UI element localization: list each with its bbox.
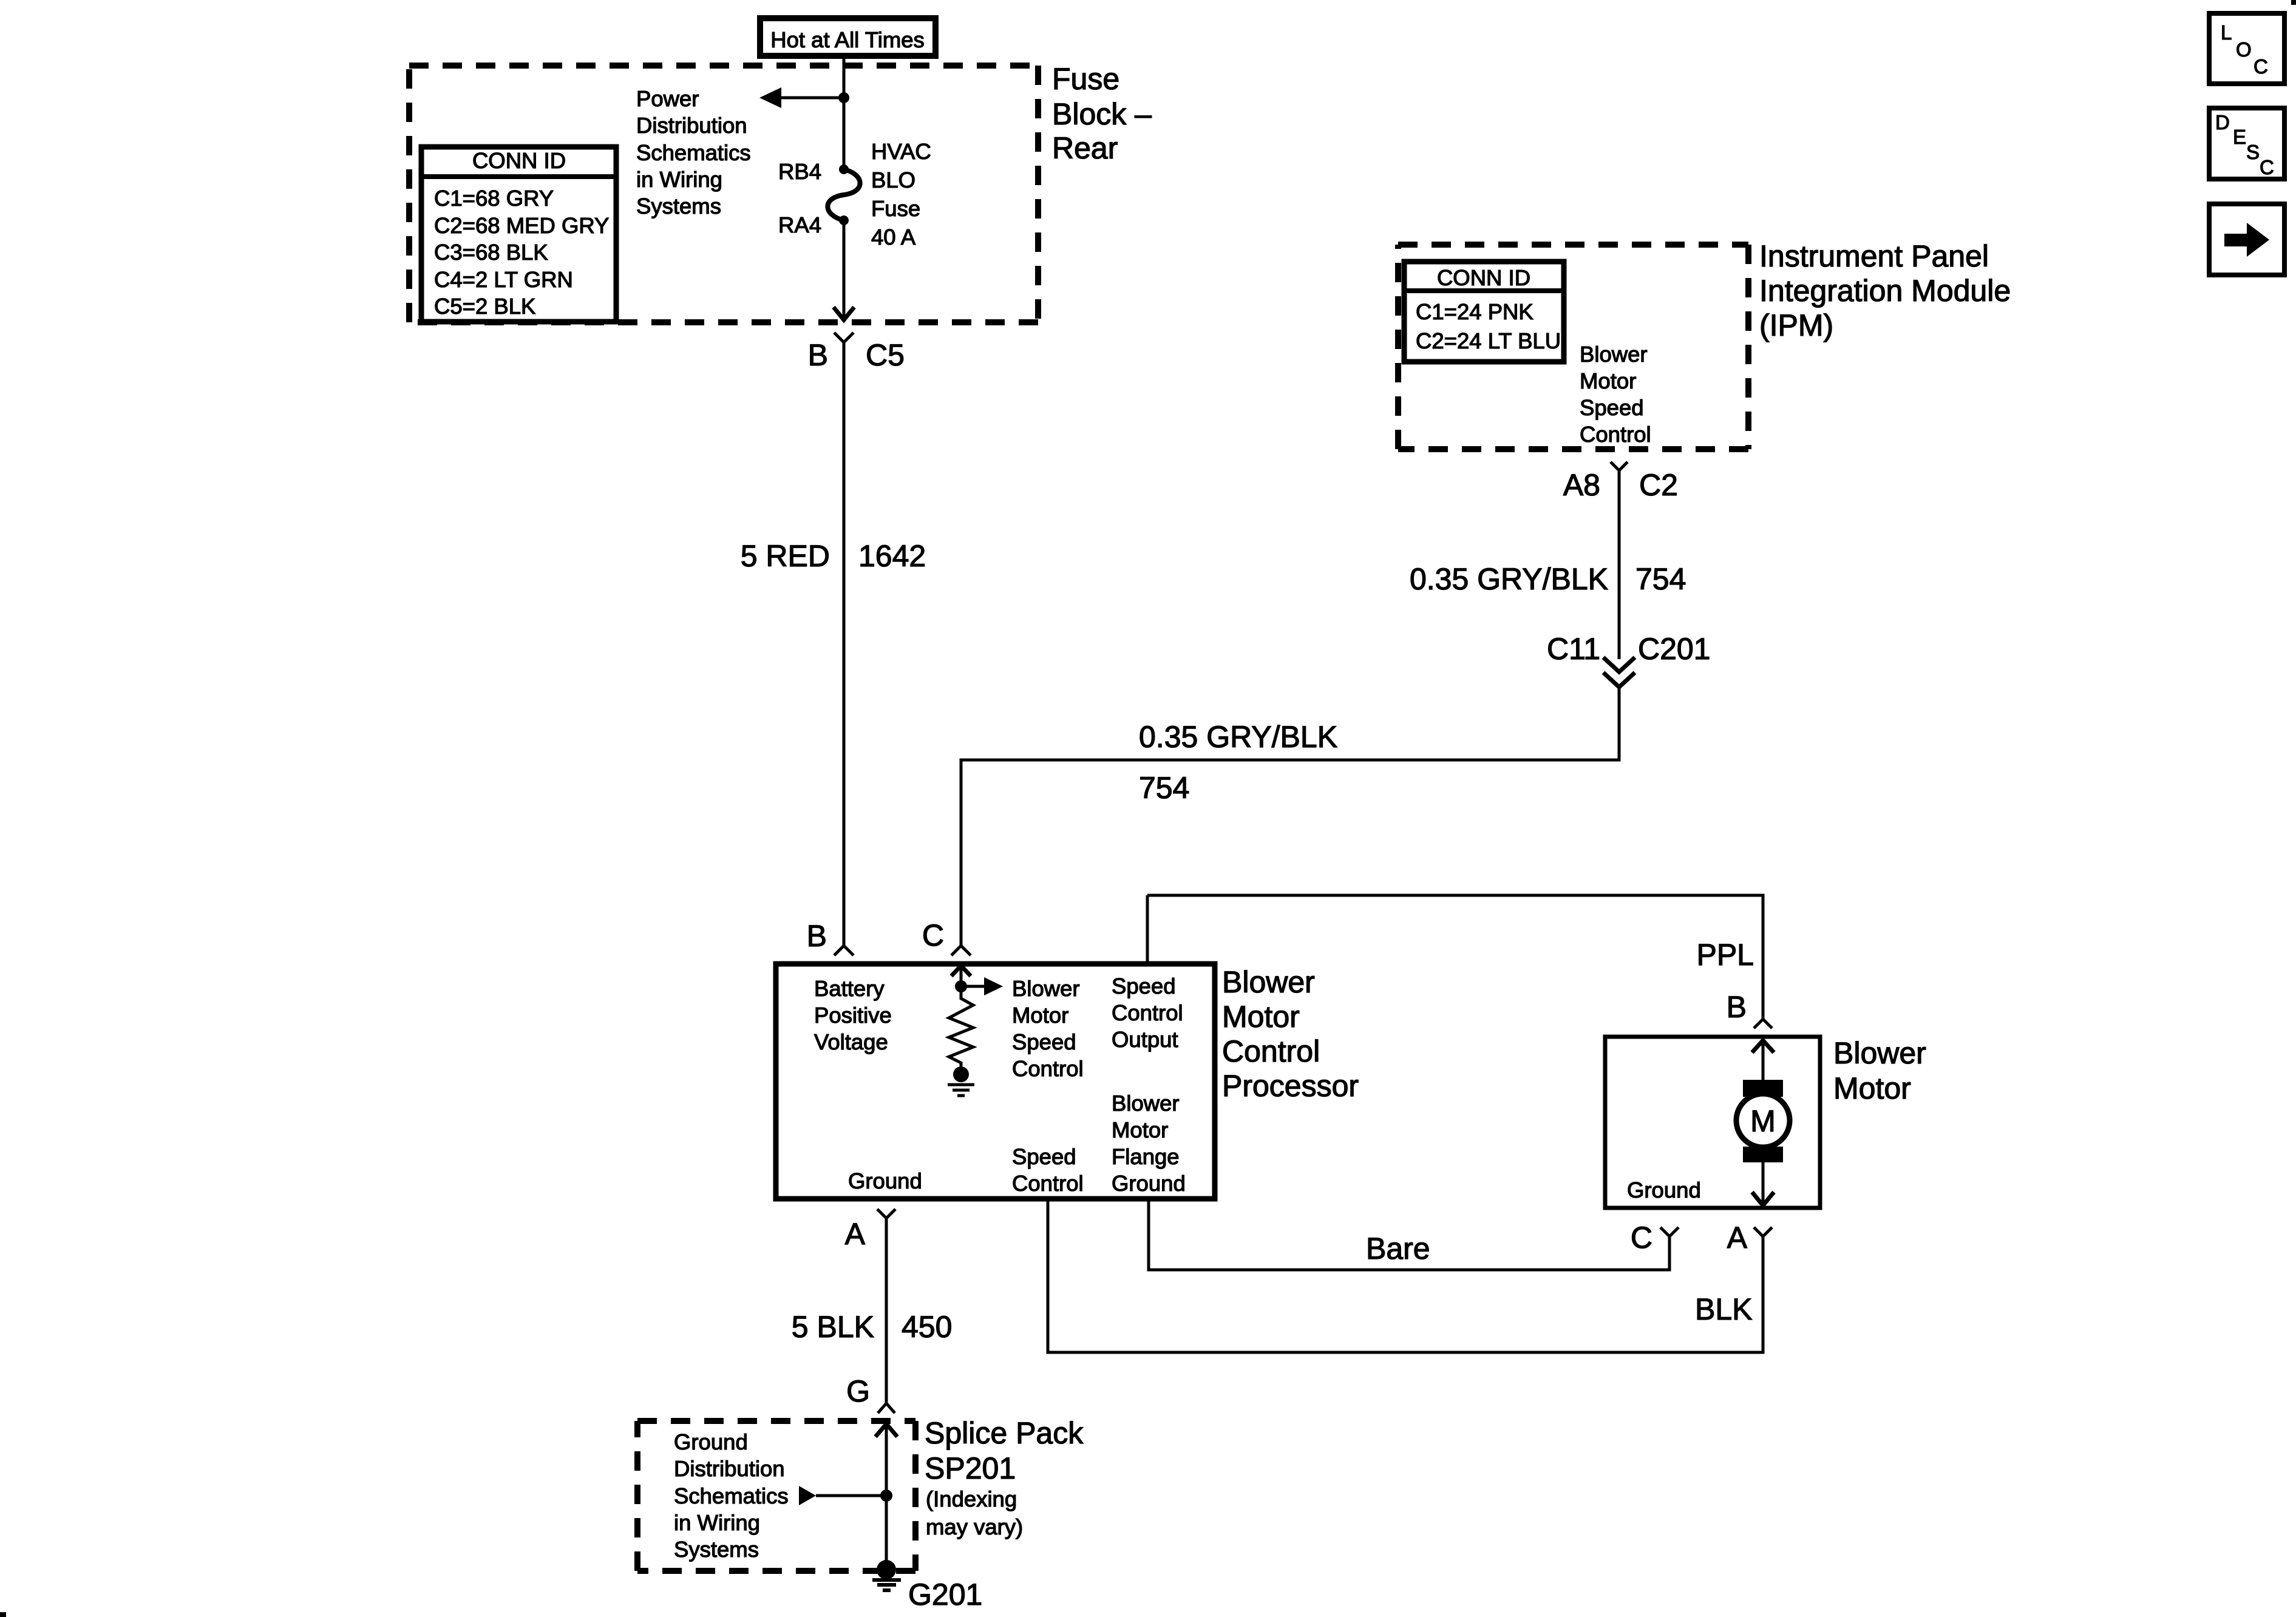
svg-text:Speed: Speed	[1112, 974, 1176, 998]
svg-text:Speed: Speed	[1012, 1029, 1076, 1054]
connector fork at IPM pin A8	[1611, 462, 1628, 470]
svg-text:in Wiring: in Wiring	[674, 1510, 760, 1535]
CONN ID table (IPM)	[1404, 262, 1564, 362]
internal junction dot	[955, 980, 967, 992]
svg-text:A: A	[845, 1217, 866, 1251]
IPM dashed outline	[1398, 245, 1748, 449]
svg-text:5 RED: 5 RED	[741, 539, 830, 573]
label Instrument Panel Integration Module (IPM)	[1759, 239, 2011, 342]
svg-text:L: L	[2221, 21, 2232, 44]
svg-text:Blower: Blower	[1833, 1036, 1926, 1070]
svg-text:(IPM): (IPM)	[1759, 308, 1833, 342]
svg-text:A8: A8	[1563, 468, 1600, 502]
svg-text:754: 754	[1139, 771, 1189, 805]
wire: branch to power distribution arrow	[776, 97, 844, 100]
svg-text:Motor: Motor	[1112, 1117, 1168, 1142]
svg-text:Systems: Systems	[636, 194, 721, 219]
svg-text:Control: Control	[1012, 1171, 1084, 1196]
DESC index box	[2209, 108, 2284, 179]
svg-text:Ground: Ground	[1112, 1171, 1186, 1196]
svg-text:C5=2 BLK: C5=2 BLK	[434, 294, 535, 319]
svg-text:Output: Output	[1112, 1027, 1178, 1052]
label Blower Motor Control Processor	[1222, 965, 1359, 1103]
svg-text:Control: Control	[1012, 1056, 1084, 1081]
svg-text:Voltage: Voltage	[814, 1029, 888, 1054]
Blower Motor box	[1605, 1037, 1820, 1208]
svg-text:C201: C201	[1638, 632, 1711, 666]
svg-text:HVAC: HVAC	[871, 139, 931, 164]
splice pack dashed outline	[637, 1421, 915, 1571]
svg-text:Control: Control	[1222, 1034, 1320, 1068]
svg-text:E: E	[2233, 126, 2246, 148]
pin label Blower Motor Flange Ground	[1112, 1091, 1186, 1196]
svg-text:may vary): may vary)	[926, 1514, 1023, 1539]
svg-text:Motor: Motor	[1833, 1071, 1911, 1105]
junction dot	[880, 1490, 892, 1502]
svg-text:Processor: Processor	[1222, 1069, 1359, 1103]
svg-text:B: B	[1727, 990, 1747, 1024]
pin label Speed Control (bottom)	[1012, 1144, 1084, 1196]
junction dot	[838, 92, 849, 103]
svg-text:Schematics: Schematics	[636, 140, 751, 165]
svg-text:PPL: PPL	[1696, 938, 1754, 972]
wire: PPL run to blower motor B	[1147, 895, 1763, 1019]
arrow from ground distribution to wire	[799, 1486, 816, 1505]
arrowhead down at fuse block edge	[834, 307, 854, 320]
svg-text:Fuse: Fuse	[1052, 62, 1119, 96]
wire: main power vertical from Hot at All Times	[843, 56, 846, 166]
LOC index box	[2209, 13, 2284, 84]
internal ground symbol	[948, 1085, 974, 1096]
svg-text:C3=68 BLK: C3=68 BLK	[434, 240, 548, 265]
svg-text:C2=24 LT BLU: C2=24 LT BLU	[1416, 328, 1561, 353]
pin label Blower Motor Speed Control (BMCP)	[1012, 976, 1084, 1081]
internal wire and down arrow to ground pin	[1762, 1162, 1765, 1204]
svg-text:Splice Pack: Splice Pack	[925, 1416, 1084, 1450]
svg-text:Distribution: Distribution	[636, 113, 747, 138]
scan artifact bottom left	[0, 1612, 6, 1617]
svg-text:Blower: Blower	[1012, 976, 1080, 1001]
svg-text:Speed: Speed	[1012, 1144, 1076, 1169]
Hot at All Times box	[760, 18, 936, 56]
svg-text:C2=68 MED GRY: C2=68 MED GRY	[434, 213, 609, 238]
svg-text:RB4: RB4	[778, 159, 821, 184]
internal up arrow at pin C	[960, 966, 963, 988]
svg-text:0.35 GRY/BLK: 0.35 GRY/BLK	[1139, 720, 1337, 754]
connector fork at blower pin B	[1754, 1019, 1772, 1028]
svg-text:Flange: Flange	[1112, 1144, 1180, 1169]
svg-text:1642: 1642	[858, 539, 926, 573]
svg-text:B: B	[808, 338, 828, 372]
svg-text:S: S	[2246, 141, 2260, 163]
svg-text:M: M	[1750, 1104, 1776, 1138]
label Fuse Block - Rear	[1052, 62, 1152, 165]
wire: Bare run from blower C to BMCP flange ground	[1149, 1199, 1669, 1270]
in-line connector C11 / C201	[1603, 657, 1635, 672]
svg-text:BLK: BLK	[1695, 1292, 1753, 1326]
internal arrow to Blower Motor Speed Control	[961, 985, 986, 988]
connector fork at BMCP pin B	[834, 946, 854, 955]
svg-text:C: C	[2254, 55, 2268, 78]
scan artifact top right	[2291, 0, 2296, 5]
wire: BLK run from blower A to BMCP speed control	[1048, 1199, 1763, 1352]
svg-text:Systems: Systems	[674, 1537, 759, 1562]
svg-text:Block –: Block –	[1052, 97, 1152, 131]
arrow index box	[2209, 204, 2284, 275]
svg-text:BLO: BLO	[871, 168, 915, 192]
wire: 0.35 GRY/BLK 754 from IPM	[1618, 470, 1621, 659]
wire: 5 BLK 450 down to splice pack	[885, 1218, 888, 1403]
svg-text:Fuse: Fuse	[871, 196, 920, 221]
svg-text:SP201: SP201	[925, 1451, 1016, 1485]
svg-text:C: C	[1631, 1221, 1652, 1255]
svg-text:754: 754	[1635, 562, 1686, 596]
svg-text:Distribution: Distribution	[674, 1456, 785, 1481]
label Splice Pack SP201	[925, 1416, 1084, 1539]
svg-text:Schematics: Schematics	[674, 1483, 789, 1508]
pin label Speed Control Output	[1112, 974, 1183, 1052]
svg-text:Integration Module: Integration Module	[1759, 274, 2011, 308]
wire: from C201 down and left to BMCP C	[961, 687, 1619, 946]
svg-text:Motor: Motor	[1580, 368, 1636, 393]
svg-text:A: A	[1727, 1221, 1748, 1255]
connector fork at BMCP pin C	[951, 946, 971, 955]
wire: 5 RED 1642 down to BMCP B	[843, 342, 846, 946]
svg-text:C11: C11	[1547, 632, 1600, 666]
svg-text:G201: G201	[908, 1578, 982, 1612]
svg-text:O: O	[2236, 38, 2252, 61]
internal up arrow below splice top edge	[885, 1424, 888, 1570]
connector fork at BMCP pin A	[877, 1209, 895, 1218]
svg-text:Ground: Ground	[848, 1168, 922, 1193]
label Blower Motor	[1833, 1036, 1926, 1105]
internal ground dot	[953, 1066, 969, 1082]
connector B / C5 fork	[834, 333, 854, 342]
svg-text:Ground: Ground	[1627, 1178, 1701, 1202]
svg-text:in Wiring: in Wiring	[636, 167, 722, 192]
svg-text:Blower: Blower	[1112, 1091, 1180, 1116]
svg-text:Ground: Ground	[674, 1429, 748, 1454]
internal up arrow at blower pin B	[1762, 1040, 1765, 1080]
svg-text:B: B	[807, 919, 827, 953]
text Power Distribution Schematics in Wiring Systems	[636, 86, 751, 219]
svg-text:Speed: Speed	[1580, 395, 1644, 420]
svg-text:C: C	[2260, 156, 2274, 178]
connector fork at G	[878, 1403, 895, 1413]
svg-text:G: G	[846, 1374, 870, 1408]
svg-text:Control: Control	[1580, 422, 1651, 447]
svg-text:C: C	[922, 918, 944, 952]
svg-text:CONN ID: CONN ID	[1437, 265, 1530, 290]
svg-text:Instrument Panel: Instrument Panel	[1759, 239, 1989, 273]
svg-text:(Indexing: (Indexing	[926, 1486, 1017, 1511]
connector fork at blower pin C	[1660, 1227, 1679, 1236]
label HVAC BLO Fuse 40 A	[871, 139, 931, 249]
wire: fuse output down to fuse block edge	[843, 220, 846, 319]
svg-text:C4=2 LT GRN: C4=2 LT GRN	[434, 267, 573, 292]
svg-text:Control: Control	[1112, 1000, 1183, 1025]
svg-text:Blower: Blower	[1580, 342, 1648, 367]
pin label Battery Positive Voltage	[814, 976, 892, 1054]
svg-text:Bare: Bare	[1366, 1232, 1430, 1266]
fuse block dashed outline	[409, 66, 1038, 322]
connector fork at blower pin A	[1754, 1227, 1772, 1236]
arrow to power distribution (left)	[759, 87, 781, 108]
svg-text:Positive: Positive	[814, 1003, 892, 1028]
svg-text:Rear: Rear	[1052, 131, 1118, 165]
svg-text:Battery: Battery	[814, 976, 885, 1001]
svg-text:5 BLK: 5 BLK	[792, 1310, 874, 1344]
svg-text:C1=68 GRY: C1=68 GRY	[434, 186, 554, 211]
pin label Blower Motor Speed Control (IPM)	[1580, 342, 1651, 447]
Blower Motor Control Processor box	[776, 964, 1215, 1199]
svg-text:450: 450	[902, 1310, 952, 1344]
motor M symbol	[1736, 1080, 1790, 1162]
svg-text:Power: Power	[636, 86, 699, 111]
fuse HVAC BLO Fuse 40A	[827, 164, 860, 225]
svg-text:Blower: Blower	[1222, 965, 1315, 999]
svg-text:CONN ID: CONN ID	[472, 148, 566, 173]
svg-text:Motor: Motor	[1012, 1003, 1068, 1028]
svg-text:C2: C2	[1639, 468, 1678, 502]
svg-text:RA4: RA4	[778, 212, 821, 237]
svg-text:Hot at All Times: Hot at All Times	[770, 27, 925, 52]
svg-text:Motor: Motor	[1222, 1000, 1300, 1034]
ground G201	[872, 1560, 901, 1590]
wire: speed control output up from box top	[1146, 895, 1149, 964]
svg-text:D: D	[2215, 111, 2230, 134]
CONN ID table (fuse block)	[421, 147, 616, 322]
text Ground Distribution Schematics in Wiring Systems	[674, 1429, 789, 1562]
svg-text:C1=24 PNK: C1=24 PNK	[1416, 299, 1533, 324]
svg-text:C5: C5	[866, 338, 905, 372]
svg-text:0.35 GRY/BLK: 0.35 GRY/BLK	[1410, 562, 1608, 596]
svg-text:40 A: 40 A	[871, 225, 916, 249]
resistor (internal)	[949, 986, 973, 1066]
